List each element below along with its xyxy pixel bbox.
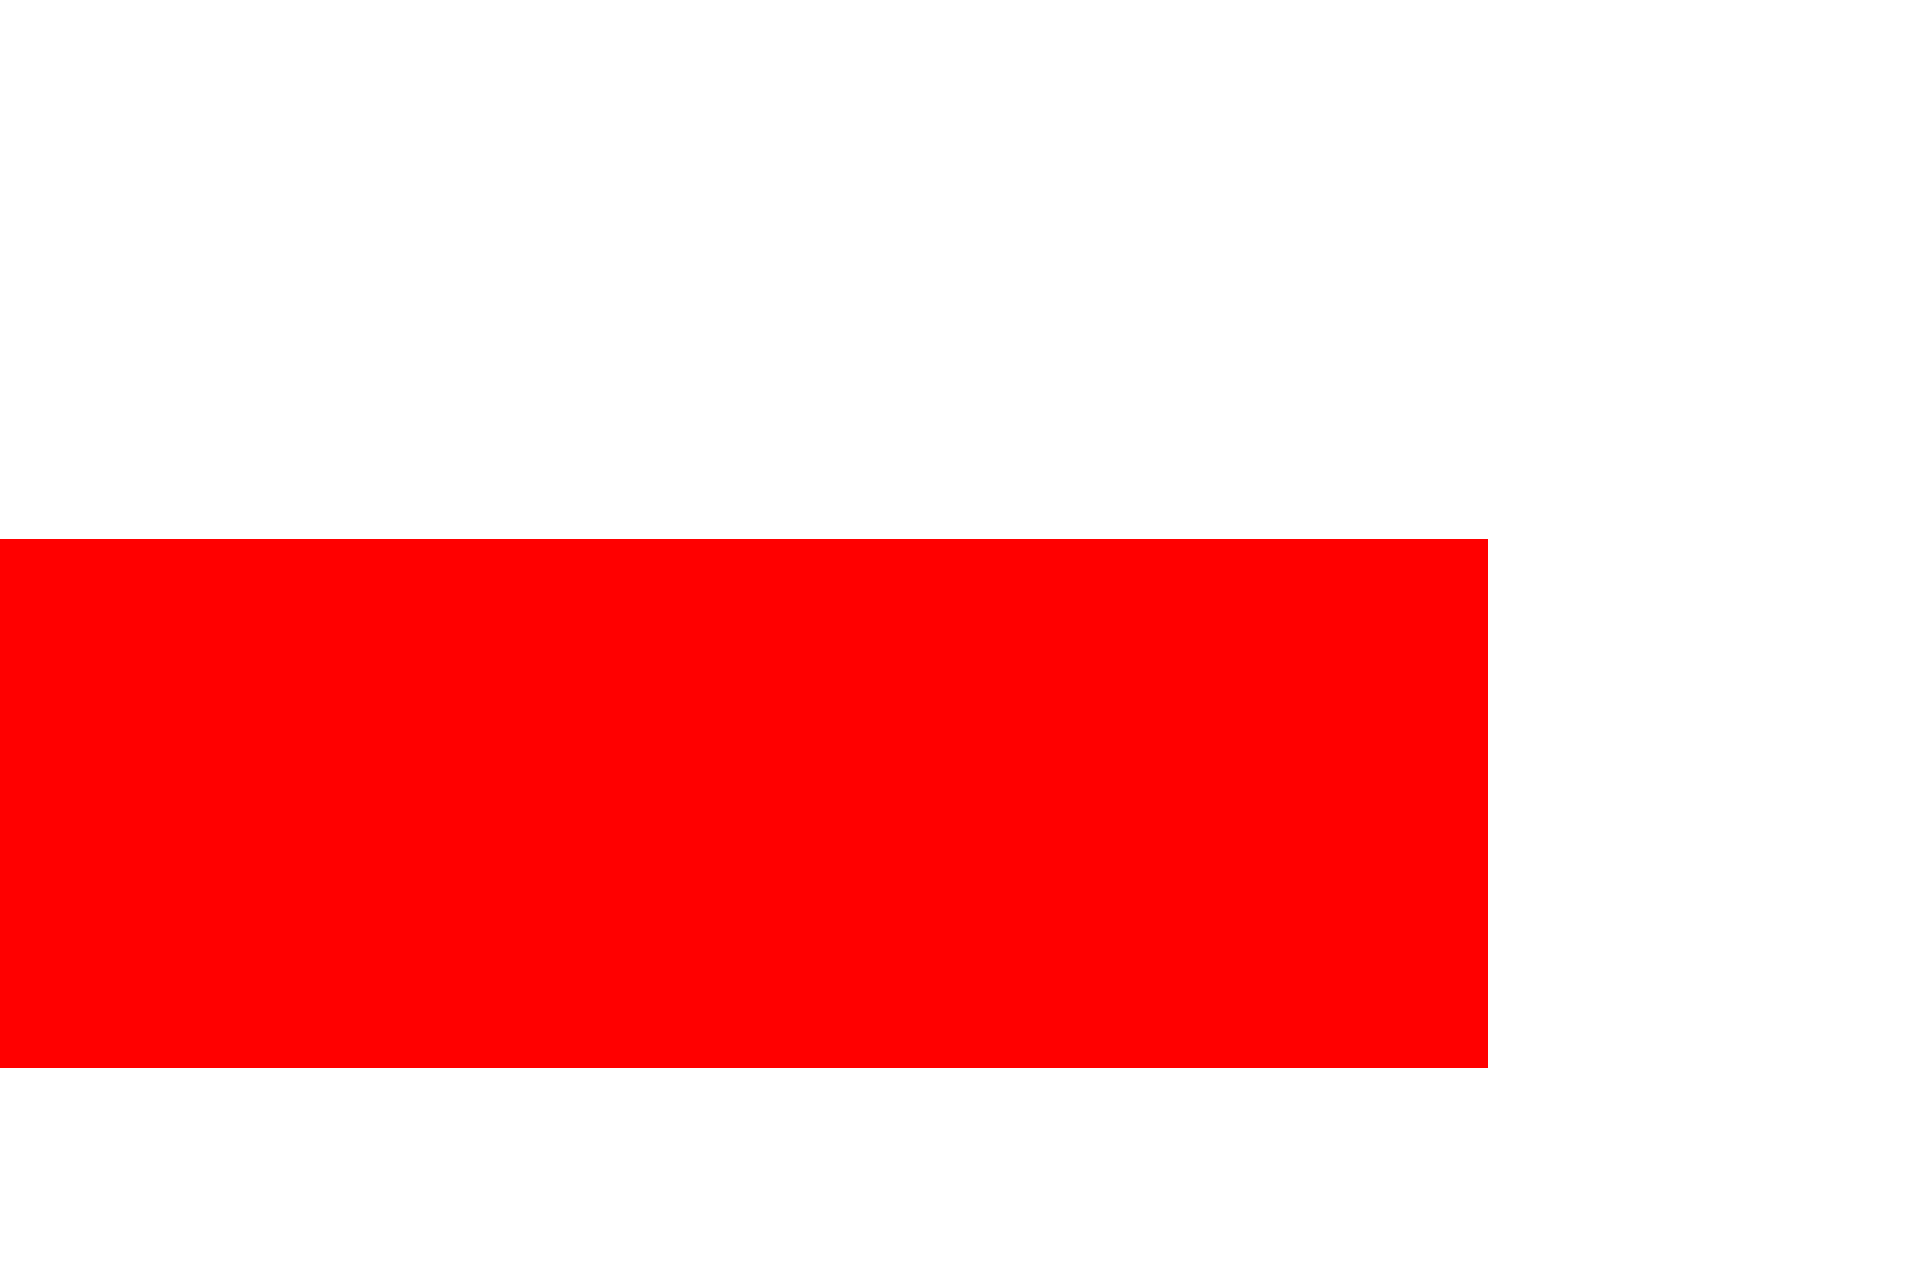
red rectangle	[0, 539, 1488, 1068]
